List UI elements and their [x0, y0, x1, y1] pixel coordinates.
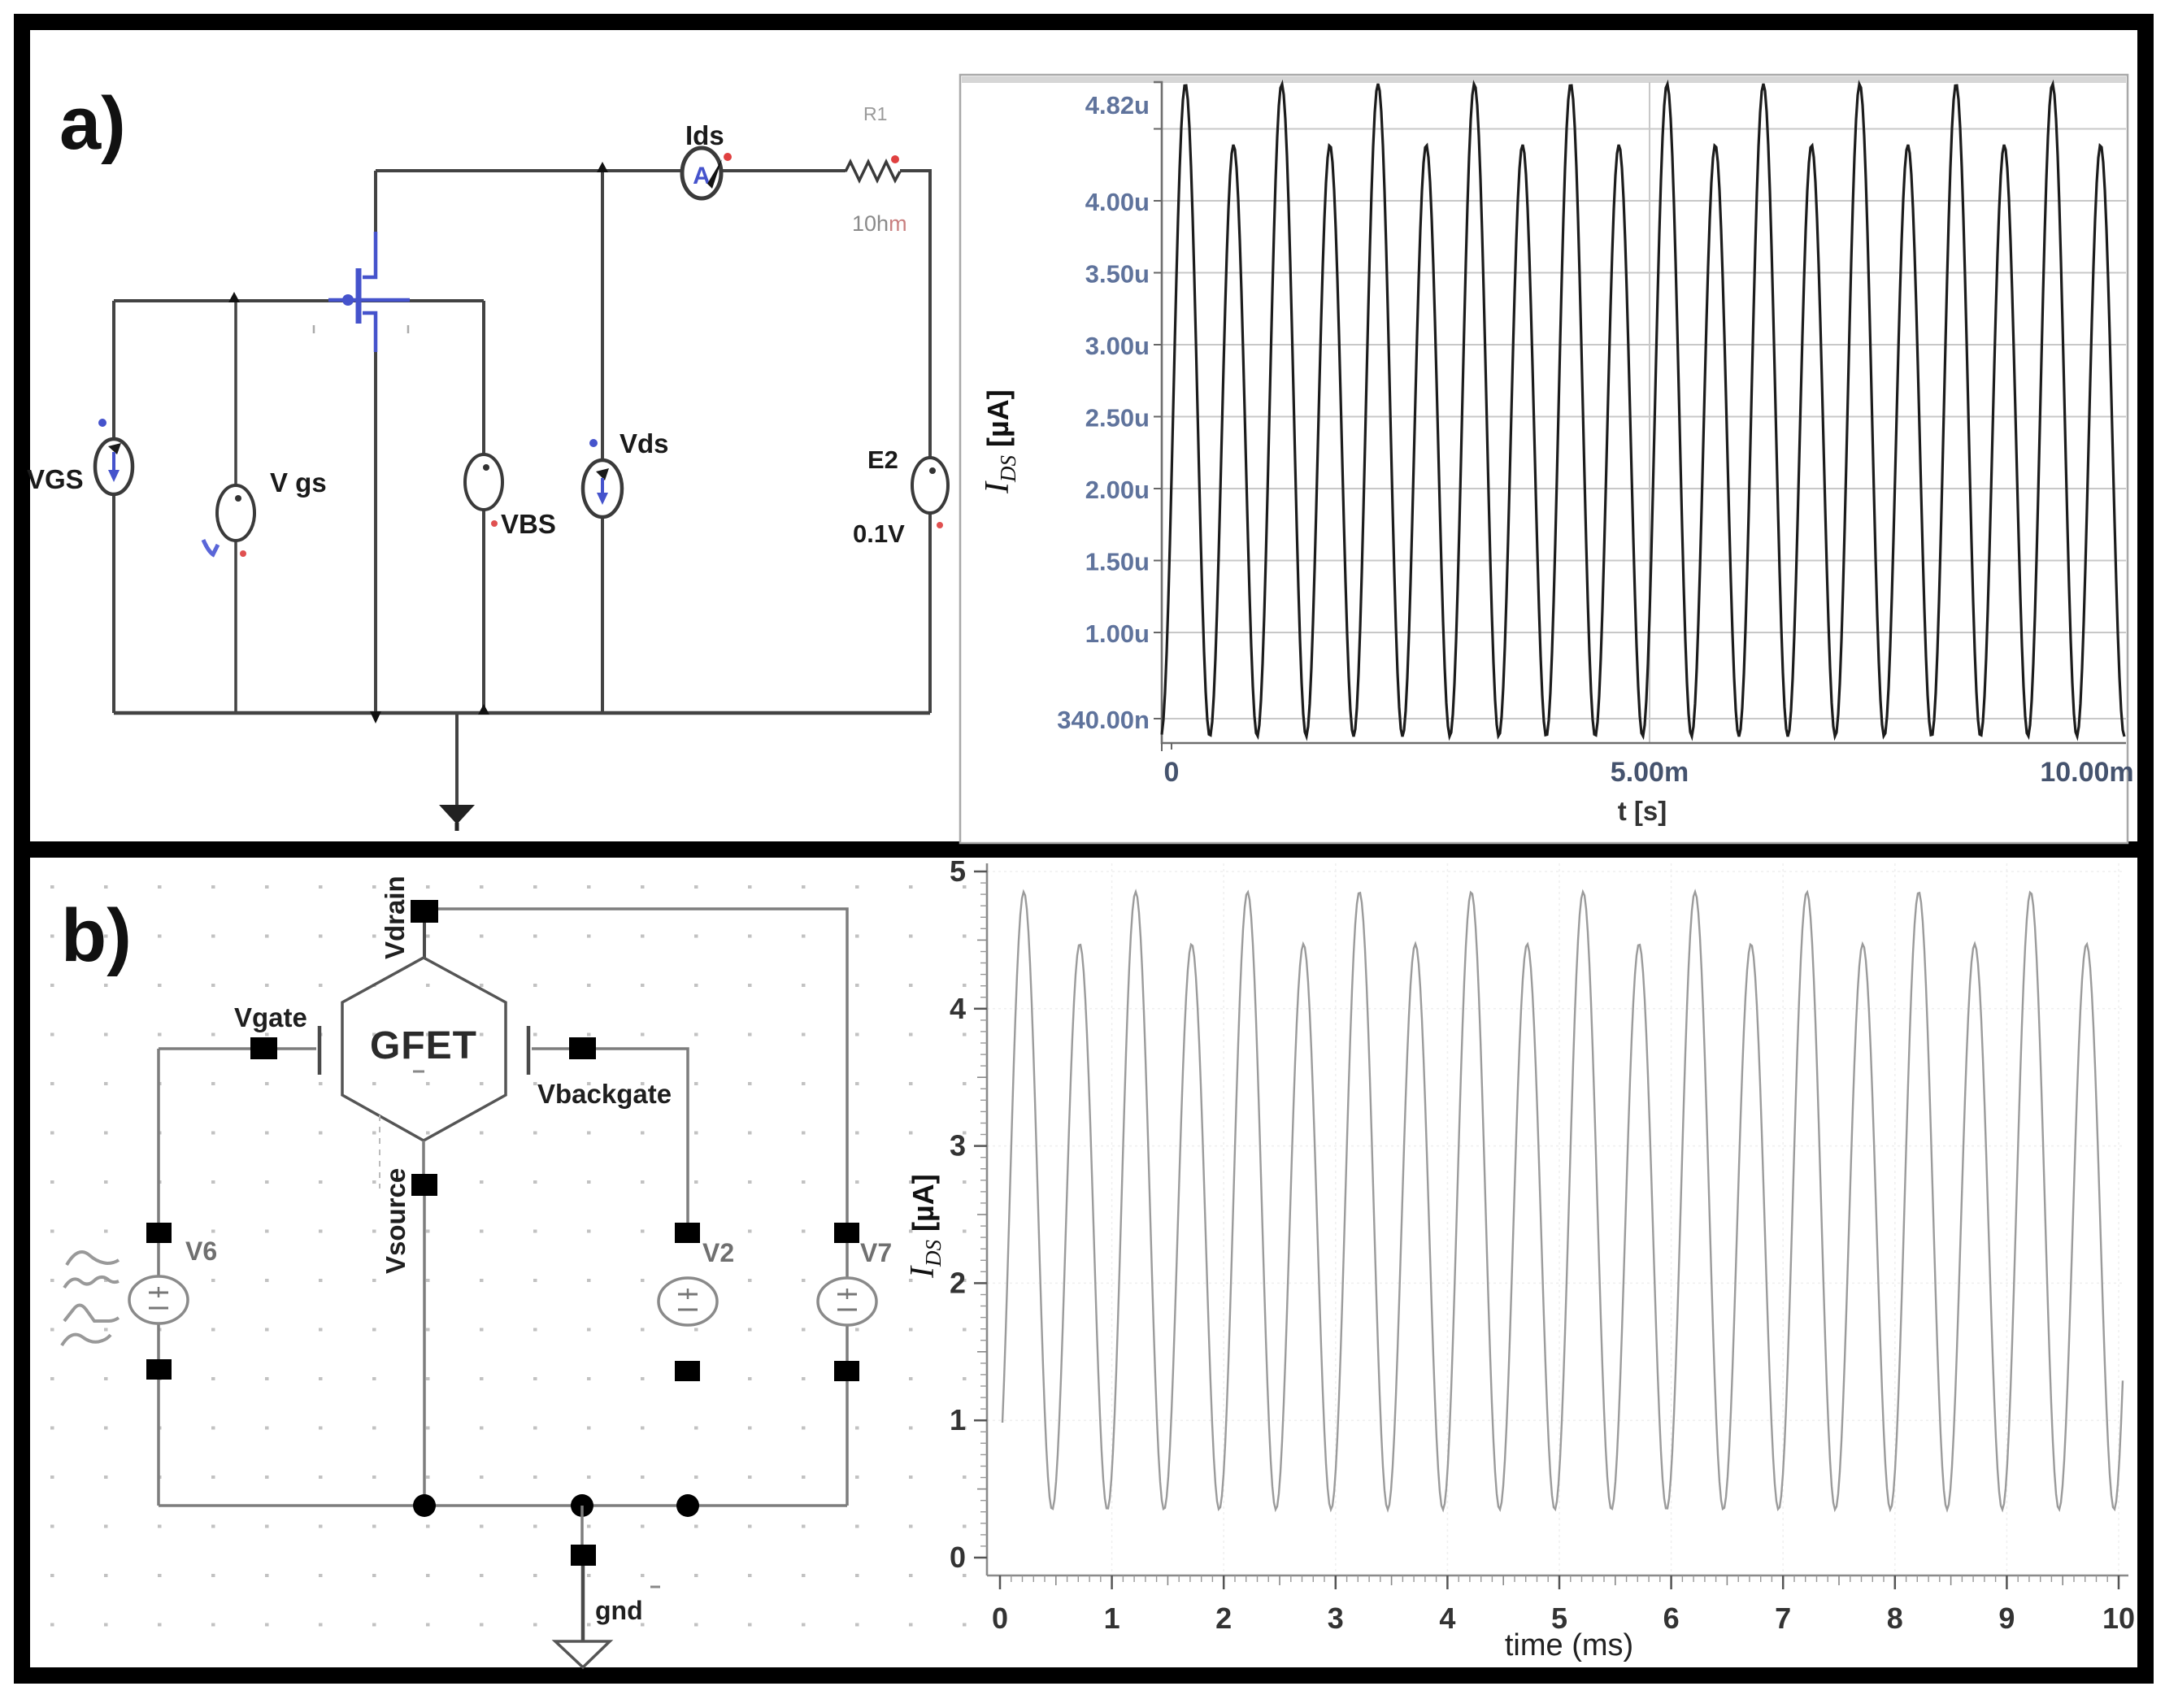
resistor R1 — [846, 162, 900, 180]
junction Vsource/rail — [413, 1494, 436, 1517]
svg-text:V6: V6 — [185, 1236, 217, 1266]
voltage source V2 — [659, 1278, 717, 1325]
svg-text:E2: E2 — [867, 445, 898, 474]
voltage source Vds — [583, 460, 622, 517]
backgate lead — [532, 1049, 688, 1223]
svg-text:Vgate: Vgate — [234, 1002, 307, 1032]
wire VGS branch — [112, 301, 115, 713]
terminal V2 bottom — [675, 1361, 700, 1381]
svg-text:a): a) — [59, 82, 126, 165]
wire drain rail b — [438, 909, 847, 1221]
svg-text:2.50u: 2.50u — [1085, 404, 1150, 432]
svg-text:V2: V2 — [702, 1238, 734, 1267]
dashed artifact — [379, 1115, 380, 1189]
wire V6 branch — [157, 1049, 160, 1506]
wire bottom rail a — [114, 711, 930, 715]
svg-text:t [s]: t [s] — [1618, 796, 1667, 826]
svg-text:4: 4 — [1439, 1602, 1455, 1635]
svg-text:6: 6 — [1663, 1602, 1680, 1635]
svg-text:time (ms): time (ms) — [1505, 1628, 1633, 1662]
plot a box — [960, 75, 2128, 843]
wire V7 branch — [846, 1221, 849, 1506]
svg-text:0: 0 — [992, 1602, 1008, 1635]
pin marks transistor — [313, 325, 315, 333]
svg-text:0: 0 — [1164, 757, 1180, 788]
wire bottom rail b — [159, 1504, 847, 1507]
node junction VBS bottom — [478, 704, 489, 715]
voltage source VGS — [95, 439, 133, 494]
svg-text:9: 9 — [1998, 1602, 2015, 1635]
terminal V2 top — [675, 1223, 700, 1243]
ground a — [455, 715, 459, 806]
plot b x labels — [992, 1602, 2135, 1635]
svg-text:4.82u: 4.82u — [1085, 91, 1150, 120]
svg-text:10.00m: 10.00m — [2040, 757, 2133, 788]
ammeter Ids — [682, 148, 721, 198]
svg-text:V7: V7 — [860, 1238, 892, 1267]
wire Vds branch — [601, 171, 604, 713]
svg-text:Vbackgate: Vbackgate — [537, 1079, 672, 1109]
panel divider — [14, 841, 2154, 858]
svg-text:3.50u: 3.50u — [1085, 260, 1150, 289]
svg-text:Vdrain: Vdrain — [380, 876, 410, 959]
svg-text:7: 7 — [1775, 1602, 1791, 1635]
junction gnd/rail — [571, 1494, 593, 1517]
svg-text:Vsource: Vsource — [380, 1168, 411, 1274]
wire VBS branch — [482, 301, 485, 713]
svg-text:1: 1 — [1104, 1602, 1120, 1635]
svg-text:b): b) — [61, 894, 132, 977]
svg-text:VBS: VBS — [501, 509, 556, 539]
svg-text:0: 0 — [950, 1541, 966, 1574]
terminal Vdrain — [411, 900, 438, 923]
transistor M1 (GFET model, blue) — [328, 232, 410, 352]
svg-text:340.00n: 340.00n — [1057, 706, 1150, 734]
svg-text:5: 5 — [950, 854, 966, 888]
plot a axes — [1154, 82, 2126, 743]
sine marks V6 — [62, 1252, 119, 1345]
voltage source V6 — [129, 1276, 188, 1323]
plot a ylabel IDS — [979, 389, 1020, 494]
terminal V6 bottom — [146, 1359, 172, 1380]
plot b y labels — [950, 854, 966, 1574]
svg-text:8: 8 — [1887, 1602, 1903, 1635]
terminal Vsource — [411, 1174, 437, 1196]
svg-text:Vds: Vds — [620, 428, 669, 459]
ground b — [580, 1506, 584, 1545]
plot b axes — [986, 863, 989, 1575]
GFET hexagon — [342, 958, 506, 1141]
svg-text:1.00u: 1.00u — [1085, 619, 1150, 648]
terminal V6 top — [146, 1223, 172, 1243]
wire top rail right — [900, 171, 930, 713]
svg-text:5.00m: 5.00m — [1611, 757, 1689, 788]
svg-text:R1: R1 — [863, 103, 887, 124]
svg-text:3: 3 — [1328, 1602, 1344, 1635]
svg-text:VGS: VGS — [27, 464, 84, 494]
svg-text:2: 2 — [1215, 1602, 1232, 1635]
svg-text:1.50u: 1.50u — [1085, 548, 1150, 576]
wire source stub — [424, 1141, 424, 1506]
voltage source V7 — [818, 1278, 876, 1325]
junction V2/rail — [676, 1494, 699, 1517]
wire gate rail — [114, 299, 484, 302]
svg-text:A: A — [693, 163, 711, 189]
wire Vgs branch — [234, 301, 237, 713]
plot a y labels — [1057, 91, 1150, 734]
svg-text:V gs: V gs — [270, 467, 327, 498]
svg-text:GFET: GFET — [370, 1024, 477, 1067]
plot a waveform — [1162, 84, 2124, 737]
terminal Vbackgate — [569, 1037, 596, 1059]
voltage source E2 — [912, 458, 948, 513]
svg-text:2: 2 — [950, 1266, 966, 1299]
svg-text:3: 3 — [950, 1129, 966, 1163]
gate lead — [159, 1047, 316, 1050]
svg-text:gnd: gnd — [595, 1596, 643, 1625]
svg-text:2.00u: 2.00u — [1085, 476, 1150, 504]
node junction gate rail — [228, 292, 240, 302]
terminal V7 bottom — [834, 1361, 859, 1381]
plot b waveform — [1002, 892, 2123, 1510]
svg-text:4: 4 — [950, 992, 966, 1025]
terminal Vgate — [250, 1037, 277, 1059]
svg-text:0.1V: 0.1V — [853, 519, 905, 548]
terminal V7 top — [834, 1223, 859, 1243]
wire source down — [374, 350, 377, 719]
node junction drain rail — [597, 162, 608, 172]
svg-text:Ids: Ids — [685, 120, 724, 150]
wire drain up — [374, 171, 377, 234]
plot b gridlines — [987, 863, 2123, 1575]
plot b ylabel IDS — [904, 1174, 946, 1279]
svg-text:10: 10 — [2102, 1602, 2135, 1635]
wire vdrain stub — [423, 923, 426, 958]
wire top rail — [376, 169, 846, 172]
plot a gridlines — [1162, 129, 2126, 719]
voltage source VBS — [465, 454, 502, 510]
svg-text:3.00u: 3.00u — [1085, 332, 1150, 360]
voltage source Vgs — [217, 485, 254, 541]
svg-text:1: 1 — [950, 1403, 966, 1436]
node junction source bottom — [370, 711, 381, 724]
svg-text:4.00u: 4.00u — [1085, 188, 1150, 216]
svg-text:10hm: 10hm — [852, 211, 907, 236]
